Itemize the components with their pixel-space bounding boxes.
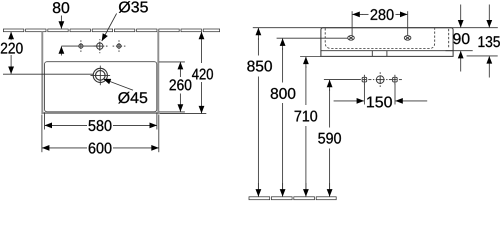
dimension 600 [42, 147, 159, 149]
dimension 150 [334, 84, 428, 105]
800 extension line to tap hole [277, 37, 348, 39]
washbasin inner rim (top view) [45, 62, 157, 112]
dimension 280 [352, 11, 408, 35]
hidden right shelf line (front view, dashed) [448, 29, 450, 49]
drain hole Ø45 (top view) [91, 66, 111, 86]
floor section hatch (front view) [249, 197, 336, 200]
label Ø35 with leader [102, 14, 117, 42]
dimension 590 [329, 80, 331, 196]
right optional tap hole (top view) [113, 40, 126, 52]
middle tap hole Ø35 (top view) [94, 39, 108, 53]
washbasin outer outline (top view) [42, 32, 158, 113]
dimension 710 [305, 57, 307, 197]
top edge / height 850 extension line (front view) [253, 27, 498, 29]
dimension 220 [10, 32, 12, 74]
dimension 80 [60, 16, 62, 56]
hidden bowl contour (front view, dashed) [325, 28, 435, 48]
extension lines right of basin (top view) [159, 62, 206, 114]
left fitting cross (front view) [362, 75, 374, 85]
drain outlet ticks (front view) [371, 51, 373, 57]
left tap hole (front view) [348, 36, 355, 41]
centre fitting circle (front view) [376, 72, 385, 87]
wall section hatch (top view) [3, 29, 219, 32]
front apron ledge line (front view) [321, 50, 453, 52]
dimension 260 [179, 62, 181, 111]
right tap hole (front view) [404, 36, 411, 41]
right fitting cross (front view) [386, 75, 402, 85]
left optional tap hole (top view) [79, 40, 83, 52]
dimension 90 [446, 5, 473, 72]
drain centre extension line (top view) [3, 73, 93, 75]
dimension 580 [45, 124, 157, 126]
dimension 800 [282, 39, 284, 197]
label Ø45 with leader [103, 79, 133, 90]
dimension 135 [467, 5, 498, 78]
590 extension line to fittings [324, 79, 361, 81]
extension lines under basin (top view) [42, 113, 159, 153]
dimension 420 [201, 32, 203, 113]
710 extension line [300, 56, 321, 58]
dimension 850 [257, 28, 259, 197]
tap hole centre line (top view) [61, 45, 99, 47]
washbasin body (front view) [321, 28, 453, 57]
